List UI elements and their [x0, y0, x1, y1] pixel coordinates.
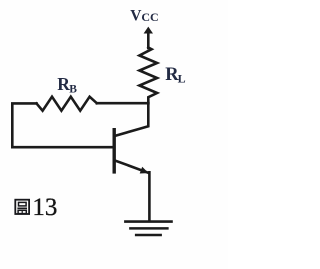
wire base: [12, 146, 112, 149]
resistor RB: [37, 97, 97, 111]
wire emitter to ground: [148, 172, 151, 221]
svg-text:V: V: [130, 8, 142, 25]
svg-text:B: B: [69, 83, 77, 95]
wire collector: [116, 103, 149, 135]
transistor Q1 emitter: [116, 161, 148, 173]
resistor RL: [139, 48, 157, 104]
svg-text:L: L: [178, 72, 186, 86]
wire left loop: left vertical and top horizontal: [12, 103, 36, 147]
transistor Q1 emitter arrowhead: [140, 167, 149, 174]
wire VCC stem: [147, 33, 150, 49]
svg-text:CC: CC: [141, 10, 158, 24]
svg-text:13: 13: [32, 194, 57, 221]
wire top right to collector node: [97, 102, 149, 105]
transistor Q1 bar: [112, 130, 115, 172]
svg-text:R: R: [57, 74, 70, 94]
label figure caption 圖 glyph: [15, 200, 29, 214]
ground: [125, 220, 171, 223]
node VCC supply arrow: [144, 27, 153, 34]
